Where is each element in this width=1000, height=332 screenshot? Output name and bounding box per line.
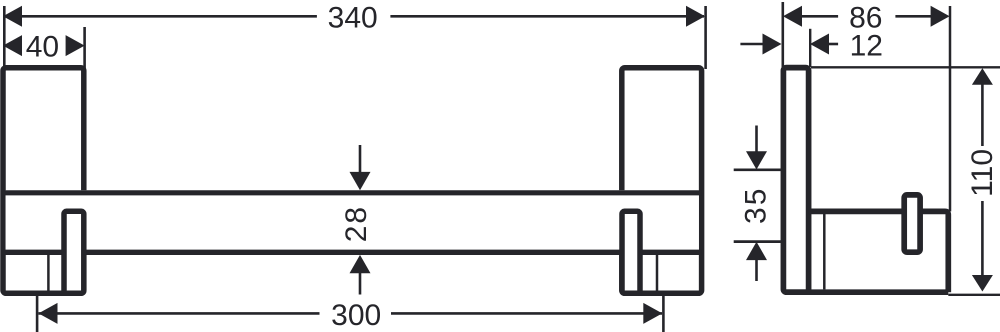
- dim 300 line: [39, 312, 320, 315]
- dim 35 arrow top: [746, 151, 767, 169]
- dim 28 line bottom: [359, 273, 362, 295]
- dim 86 arrows: [783, 6, 802, 27]
- svg-text:28: 28: [340, 205, 373, 242]
- dim 28 arrow bottom: [350, 255, 371, 273]
- wall plate: [783, 68, 808, 293]
- inner edge line right: [656, 255, 659, 291]
- right hook: [622, 211, 640, 293]
- dim 35 arrow bottom: [746, 242, 767, 260]
- side right extension (86): [949, 6, 952, 211]
- dim 12 extension right: [809, 29, 811, 67]
- dim 300 extension right: [662, 296, 665, 332]
- svg-text:110: 110: [966, 149, 999, 197]
- dim 110 arrow top: [972, 68, 993, 85]
- dim 86 extension left: [781, 2, 784, 70]
- dim 340 extension right: [704, 6, 707, 69]
- dim 110 line top: [981, 84, 984, 146]
- dim 28 line top: [359, 145, 362, 173]
- dim 28 arrow top: [350, 172, 371, 190]
- side inner edge line: [823, 214, 826, 289]
- side hook: [904, 195, 920, 252]
- svg-text:340: 340: [328, 2, 378, 35]
- dim 12 line right: [829, 43, 838, 46]
- svg-text:35: 35: [740, 187, 773, 224]
- towel bar band: [6, 190, 699, 255]
- dim 35 line top: [755, 126, 758, 153]
- dim 340 line: [4, 15, 317, 18]
- svg-text:40: 40: [26, 30, 59, 63]
- towel bar bottom edge: [3, 250, 702, 255]
- dim 300 extension left: [36, 296, 39, 332]
- towel bar top edge: [3, 190, 702, 195]
- side bottom edge: [785, 289, 948, 295]
- left post: [3, 68, 84, 294]
- dim 35 tick bottom: [734, 240, 781, 243]
- dim 110 arrow bottom: [972, 275, 993, 292]
- dim 110 line bottom: [981, 201, 984, 276]
- dim 40 extension right: [83, 27, 86, 69]
- dim 12 arrow left: [763, 34, 782, 55]
- dim 12 line left: [740, 43, 764, 46]
- dim 340 arrows: [3, 6, 22, 27]
- side bottom extension (110): [948, 294, 1000, 296]
- dim 340 extension left: [3, 6, 6, 69]
- svg-text:300: 300: [331, 299, 381, 332]
- dim 35 tick top: [734, 168, 781, 171]
- dim 35 line bottom: [755, 260, 758, 281]
- side top outline: [811, 66, 1000, 68]
- left hook: [64, 211, 84, 293]
- dim 40 arrows: [3, 35, 22, 56]
- dim 12 arrow right: [810, 34, 829, 55]
- dim 300 arrows: [39, 303, 58, 324]
- right post: [622, 68, 702, 294]
- side bar outline: [809, 211, 949, 292]
- inner edge line left: [47, 255, 50, 291]
- svg-text:12: 12: [850, 29, 883, 62]
- dim 86 line: [802, 15, 838, 18]
